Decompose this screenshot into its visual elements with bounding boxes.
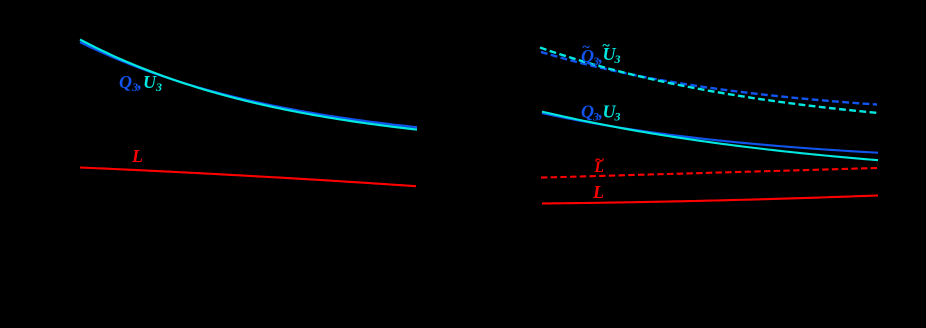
right panel solid cyan curve U3 xyxy=(542,112,878,161)
right panel dashed blue curve Q3-tilde xyxy=(540,52,877,105)
svg-text:L: L xyxy=(592,182,604,202)
svg-text:~: ~ xyxy=(602,39,610,54)
left panel solid red line L xyxy=(80,168,416,187)
left panel solid cyan curve U3 xyxy=(80,40,417,130)
right panel dashed red line L-tilde xyxy=(541,168,878,178)
svg-text:L: L xyxy=(131,146,143,166)
right panel solid red line L xyxy=(542,195,878,203)
left panel solid blue curve Q3 xyxy=(80,42,417,127)
svg-text:~: ~ xyxy=(582,40,590,55)
svg-text:Q3,U3: Q3,U3 xyxy=(581,102,621,124)
svg-text:Q3,U3: Q3,U3 xyxy=(119,72,162,94)
right panel solid blue curve Q3 xyxy=(542,113,878,153)
svg-text:~: ~ xyxy=(595,151,605,170)
right panel dashed cyan curve U3-tilde xyxy=(540,48,877,113)
